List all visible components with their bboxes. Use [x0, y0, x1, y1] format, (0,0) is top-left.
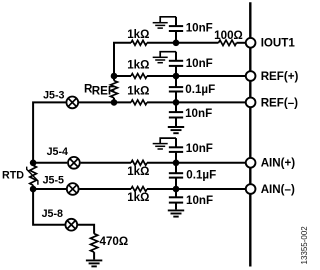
- svg-text:100Ω: 100Ω: [214, 29, 243, 42]
- capacitor 0.1uF (AIN): [175, 163, 177, 173]
- wire: flag arm to ground (REF(+) cap): [160, 52, 176, 57]
- svg-text:10nF: 10nF: [186, 142, 213, 155]
- RTD diagonal stroke: [27, 167, 38, 185]
- resistor RREF: [113, 76, 115, 81]
- connector pin J5-3: [66, 97, 78, 109]
- wire: J5-3 to left drop: [33, 102, 66, 162]
- wire: REF(+) line left segment: [114, 75, 131, 77]
- resistor 1k (AIN(-) line): [131, 187, 147, 192]
- wire: left drop to J5-8 line: [33, 189, 65, 225]
- svg-text:10nF: 10nF: [186, 21, 213, 34]
- svg-text:1kΩ: 1kΩ: [127, 58, 149, 71]
- wire: flag arm to ground (AIN(+) cap): [160, 138, 176, 143]
- wire: REF(-) line right segment: [147, 101, 246, 103]
- wire: right vertical bus: [249, 2, 251, 266]
- node REF(+) terminal: [246, 71, 256, 81]
- wire: left rail top + IOUT1 line left segment: [114, 43, 131, 76]
- svg-text:RTD: RTD: [2, 170, 24, 182]
- svg-text:AIN(+): AIN(+): [261, 157, 296, 170]
- connector pin J5-4: [33, 162, 67, 164]
- wire: REF(+) line right segment: [147, 75, 246, 77]
- resistor 1k (IOUT1 line): [131, 40, 147, 45]
- ground (IOUT1 cap): [153, 22, 168, 24]
- svg-text:10nF: 10nF: [185, 107, 212, 120]
- junction: cap/AIN(-): [173, 186, 180, 193]
- junction: cap/IOUT1 line: [173, 40, 180, 47]
- junction: rail/REF(-): [111, 99, 118, 106]
- node REF(-) terminal: [246, 98, 256, 108]
- svg-text:J5-3: J5-3: [43, 89, 64, 101]
- wire: 100 ohm to IOUT1 terminal: [237, 42, 246, 44]
- wire: J5-3 to rail: [79, 101, 131, 103]
- svg-text:REF(+): REF(+): [261, 70, 299, 83]
- resistor 1k (REF(+) line): [131, 74, 147, 79]
- svg-text:10nF: 10nF: [186, 57, 213, 70]
- svg-text:0.1µF: 0.1µF: [185, 83, 215, 96]
- svg-text:10nF: 10nF: [186, 194, 213, 207]
- svg-text:0.1µF: 0.1µF: [186, 168, 216, 181]
- resistor 100 ohm: [219, 40, 237, 45]
- ground (REF(+) cap): [153, 56, 168, 58]
- node AIN(+) terminal: [246, 158, 256, 168]
- resistor RTD: [32, 163, 34, 166]
- svg-text:IOUT1: IOUT1: [261, 37, 296, 50]
- ground (470 ohm): [86, 259, 102, 261]
- wire: J5-8 to 470 ohm: [78, 225, 94, 234]
- capacitor 10nF (below AIN(-)): [175, 189, 177, 197]
- junction: cap/REF(-): [173, 99, 180, 106]
- svg-text:J5-5: J5-5: [43, 175, 64, 187]
- junction: left drop / AIN(+) / RTD top: [30, 160, 37, 167]
- svg-text:1kΩ: 1kΩ: [127, 191, 149, 204]
- resistor 470 ohm: [91, 234, 98, 252]
- ground (AIN(+) cap): [153, 143, 168, 145]
- resistor 1k (AIN(+) line): [131, 160, 147, 165]
- junction: RTD bottom / AIN(-): [30, 186, 37, 193]
- node AIN(-) terminal: [246, 184, 256, 194]
- svg-text:J5-4: J5-4: [47, 146, 68, 158]
- wire: J5-5 to 1k: [79, 188, 131, 190]
- wire: J5-4 to 1k: [81, 162, 131, 164]
- svg-text:1kΩ: 1kΩ: [127, 165, 149, 178]
- svg-text:470Ω: 470Ω: [100, 235, 129, 248]
- junction: cap/REF(+): [173, 73, 180, 80]
- svg-text:13355-002: 13355-002: [300, 226, 309, 265]
- svg-text:1kΩ: 1kΩ: [127, 28, 149, 41]
- connector pin J5-5: [33, 188, 66, 190]
- ground (below AIN(-) cap): [168, 209, 184, 211]
- svg-text:AIN(–): AIN(–): [261, 183, 295, 196]
- wire: flag arm to ground (IOUT1 cap): [160, 17, 176, 23]
- junction: cap/AIN(+): [173, 160, 180, 167]
- capacitor 10nF (below REF(-)): [175, 102, 177, 112]
- wire: 470 ohm to ground: [93, 252, 95, 259]
- capacitor 10nF (REF(+) line): [175, 66, 177, 76]
- capacitor 10nF (IOUT1 line): [175, 31, 177, 43]
- connector pin J5-8: [65, 219, 77, 231]
- svg-text:REF(–): REF(–): [261, 96, 298, 109]
- svg-text:1kΩ: 1kΩ: [127, 85, 149, 98]
- capacitor 0.1uF (REF): [175, 76, 177, 87]
- wire: IOUT1 line middle segment: [147, 42, 219, 44]
- resistor 1k (REF(-) line): [131, 100, 147, 105]
- junction: rail/REF(+): [111, 73, 118, 80]
- capacitor 10nF (AIN(+) line): [175, 152, 177, 163]
- wire: AIN(-) line right segment: [147, 188, 246, 190]
- wire: AIN(+) line right segment: [147, 162, 246, 164]
- svg-text:J5-8: J5-8: [42, 208, 63, 220]
- svg-text:REF: REF: [92, 85, 115, 98]
- node IOUT1 terminal: [246, 38, 256, 48]
- ground (below REF(-) cap): [168, 126, 184, 128]
